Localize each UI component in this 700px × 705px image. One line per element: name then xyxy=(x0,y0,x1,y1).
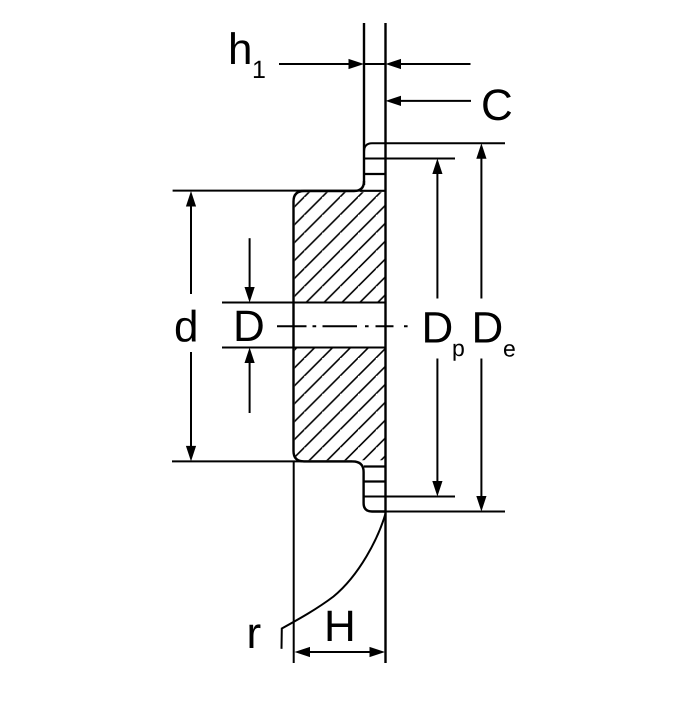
h1 line middle xyxy=(364,63,386,65)
De arrow down xyxy=(476,496,486,512)
tooth plate left vertical xyxy=(363,23,365,185)
extension line H left xyxy=(293,462,295,663)
label Dp subscript p xyxy=(453,344,463,361)
bore bottom line xyxy=(222,347,386,349)
De arrow up xyxy=(476,143,486,159)
Dp arrow up xyxy=(432,159,442,175)
hatched hub upper section xyxy=(295,192,385,302)
label r xyxy=(249,624,260,648)
hub top line under tooth xyxy=(360,190,386,192)
centerline xyxy=(277,325,408,327)
hatched hub lower section xyxy=(295,348,385,461)
tooth chamfer lines bottom xyxy=(364,465,386,467)
dimension H line xyxy=(308,651,371,653)
tooth tip bottom line (De extension) xyxy=(372,511,505,513)
dimension h1 line left xyxy=(279,63,349,65)
label H xyxy=(328,611,353,641)
bore top line xyxy=(222,302,386,304)
tooth chamfer line top (Dp extension) xyxy=(364,158,455,160)
label C xyxy=(483,89,511,120)
D arrow down xyxy=(245,287,255,303)
tooth chamfer line bottom (Dp extension) xyxy=(364,496,455,498)
label De subscript e xyxy=(504,344,515,357)
label D xyxy=(237,311,263,341)
dimension C arrow left xyxy=(386,96,402,106)
h1 arrow right xyxy=(349,59,365,69)
label d xyxy=(176,310,196,342)
tooth chamfer line top inner xyxy=(364,173,386,175)
D arrow up xyxy=(245,348,255,364)
Dp arrow down xyxy=(432,481,442,497)
dimension d extension bottom xyxy=(172,460,352,462)
H arrow right xyxy=(370,647,386,657)
dimension D line bottom xyxy=(249,362,251,413)
label h subscript 1 xyxy=(254,61,265,78)
hub outline xyxy=(294,181,386,512)
dimension C line xyxy=(401,100,471,102)
dimension Dp line xyxy=(436,172,438,482)
tooth plate right vertical xyxy=(384,23,386,663)
H arrow left xyxy=(295,647,311,657)
tooth tip top line (De extension) xyxy=(364,143,505,152)
h1 arrow left xyxy=(386,59,402,69)
dimension D line top xyxy=(249,238,251,288)
d arrow up xyxy=(186,191,196,207)
h1 line right xyxy=(401,63,471,65)
label Dp xyxy=(425,312,451,342)
label h xyxy=(231,32,250,64)
radius r curve xyxy=(282,514,386,649)
d arrow down xyxy=(186,446,196,462)
label De xyxy=(475,312,501,342)
dimension d extension top xyxy=(173,190,362,192)
dimension d line xyxy=(190,205,192,447)
dimension De line xyxy=(480,157,482,497)
